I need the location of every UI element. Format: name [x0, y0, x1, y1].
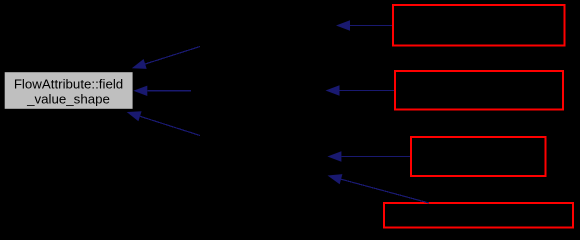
node red box 3 (third right, truncated node) [411, 137, 546, 176]
edge red box 3 to node C (horizontal arrow) [327, 151, 410, 161]
edge node B to grey node (horizontal arrow) [133, 86, 191, 96]
edge node C to grey node (diagonal arrow into bottom-right corner) [127, 111, 200, 135]
svg-text:FlowAttribute::field: FlowAttribute::field [14, 77, 123, 92]
edge red box 1 to node A (horizontal arrow) [336, 20, 392, 30]
node red box 4 (bottom, truncated node) [384, 203, 573, 228]
edge red box 2 to node B (horizontal arrow) [326, 85, 395, 95]
svg-text:_value_shape: _value_shape [26, 92, 110, 107]
edge red box 4 to node C (diagonal arrow) [328, 174, 430, 203]
node red box 2 (second right, truncated node) [395, 71, 563, 110]
node red box 1 (top right, truncated node) [393, 5, 565, 46]
edge node A to grey node (diagonal arrow into top-right corner) [132, 47, 200, 69]
node FlowAttribute::field_value_shape (current node, grey) [4, 72, 133, 110]
